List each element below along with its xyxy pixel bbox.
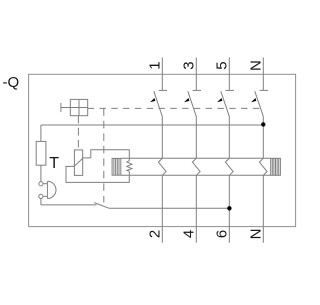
svg-text:4: 4 — [180, 230, 197, 238]
test wire horizontal — [41, 124, 263, 126]
contact tick pole 3 — [226, 89, 234, 91]
contact tick pole 1 — [159, 89, 167, 91]
svg-text:2: 2 — [146, 230, 163, 238]
latch link dashed vertical — [77, 116, 79, 150]
terminal N top lead — [262, 58, 264, 91]
pole 2 mid wire — [195, 117, 197, 159]
terminal N bottom lead — [262, 175, 264, 243]
terminal 2 lead — [161, 175, 163, 243]
trip arrow pole 2 — [184, 98, 189, 102]
svg-text:1: 1 — [146, 61, 163, 69]
test button upper contact — [39, 182, 43, 186]
test bottom wire right — [109, 207, 230, 209]
aux switch blade — [94, 203, 109, 209]
trip arrow pole N — [251, 98, 256, 102]
terminal 3 lead — [195, 58, 197, 91]
terminal 1 lead — [161, 58, 163, 91]
junction dot N / test wire — [261, 122, 265, 126]
trip arrow pole 1 — [150, 98, 155, 102]
terminal 4 lead — [195, 175, 197, 243]
latch left tick — [60, 103, 62, 112]
terminal 5 lead — [228, 58, 230, 91]
CT zigzag pole N — [259, 158, 267, 175]
svg-text:T: T — [49, 155, 59, 172]
resistor lower lead — [40, 165, 42, 181]
CT zigzag pole 1 — [158, 158, 166, 175]
pole 3 mid wire — [228, 117, 230, 159]
CT band top wire — [121, 157, 271, 159]
CT secondary winding — [271, 158, 281, 175]
pole N mid wire — [262, 117, 264, 159]
contact tick pole 2 — [193, 89, 201, 91]
svg-text:N: N — [247, 60, 264, 71]
svg-text:5: 5 — [213, 61, 230, 69]
CT zigzag pole 3 — [225, 158, 233, 175]
pole 1 mid wire — [161, 117, 163, 159]
terminal 6 lead — [228, 175, 230, 243]
switch blade pole 1 — [154, 91, 163, 116]
relay spring — [127, 161, 132, 172]
svg-text:3: 3 — [180, 61, 197, 69]
switch blade pole 3 — [221, 91, 230, 116]
aux link dashed vertical — [103, 108, 105, 202]
test lower lead — [40, 199, 42, 205]
relay coil block — [112, 158, 121, 175]
switch blade pole 2 — [188, 91, 197, 116]
svg-text:6: 6 — [213, 230, 230, 238]
trip coupling dashed horizontal — [88, 107, 261, 109]
test bottom wire left — [41, 204, 97, 206]
trip arrow pole 3 — [217, 98, 222, 102]
junction dot line 6 / test wire — [227, 206, 231, 210]
switch blade pole N — [255, 91, 263, 116]
svg-text:N: N — [247, 228, 264, 239]
CT band bottom wire — [121, 174, 271, 176]
relay outline — [66, 150, 129, 183]
test wire drop — [40, 125, 42, 141]
resistor T — [36, 141, 46, 165]
relay armature rect — [74, 150, 82, 176]
latch square — [70, 99, 87, 115]
test button lower contact — [39, 194, 43, 198]
enclosure box — [29, 74, 296, 226]
svg-text:-Q: -Q — [3, 74, 20, 91]
latch left lead — [61, 107, 70, 109]
CT zigzag pole 2 — [192, 158, 200, 175]
test button actuator — [46, 181, 48, 198]
contact tick pole N — [260, 89, 268, 91]
